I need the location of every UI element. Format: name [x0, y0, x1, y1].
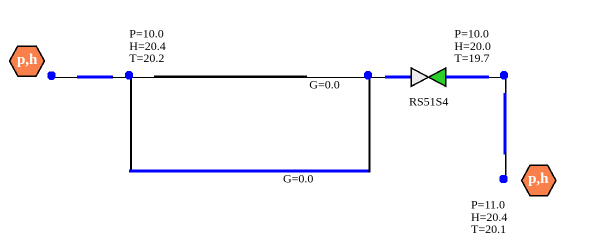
pipe L1 (blue)	[77, 76, 113, 79]
svg-text:T=20.2: T=20.2	[129, 51, 164, 65]
svg-text:T=20.1: T=20.1	[471, 222, 506, 236]
valve RS51S4 left triangle	[411, 68, 428, 86]
svg-text:p,h: p,h	[528, 171, 549, 187]
node K3	[364, 71, 372, 79]
wire: pipe L5 to node K5	[505, 152, 506, 178]
pipe L4 right blue segment	[446, 76, 489, 79]
node K2	[125, 71, 133, 79]
wire: right vertical connector	[369, 77, 371, 173]
wire: node K1 to pipe L1	[55, 77, 79, 78]
svg-text:G=0.0: G=0.0	[309, 77, 339, 91]
svg-text:T=19.7: T=19.7	[454, 51, 489, 65]
wire: pipe L4 to corner	[489, 77, 506, 78]
pipe L5 (blue vertical)	[504, 93, 507, 155]
svg-text:G=0.0: G=0.0	[283, 171, 313, 185]
wire: node K2 to node K3 (top edge thin)	[131, 77, 369, 78]
valve RS51S4 right triangle	[429, 68, 446, 86]
pipe L3 (blue, bottom edge)	[129, 170, 370, 173]
svg-text:p,h: p,h	[17, 52, 38, 68]
pipe L2 (black thick, top edge)	[154, 76, 307, 78]
svg-text:RS51S4: RS51S4	[409, 94, 448, 108]
pipe L4 left blue segment	[385, 76, 412, 79]
node K1	[47, 71, 55, 79]
node K5	[499, 175, 507, 183]
node K4	[500, 71, 508, 79]
wire: pipe L1 to node K2	[111, 77, 127, 78]
wire: corner down to pipe L5	[505, 77, 506, 95]
wire: node K3 to pipe L4	[370, 77, 385, 78]
wire: left vertical connector	[130, 77, 132, 171]
source symbol B1 (p,h boundary, left)	[10, 46, 45, 76]
source symbol B2 (p,h boundary, right)	[522, 165, 556, 196]
